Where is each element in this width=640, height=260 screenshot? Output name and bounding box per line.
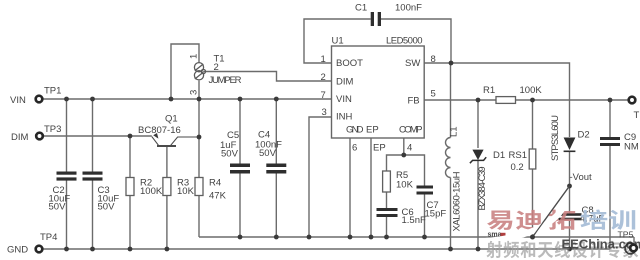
- node VIN-T1 riser: [169, 97, 174, 102]
- svg-text:-Vout: -Vout: [570, 172, 593, 183]
- node gnd L1: [448, 247, 453, 252]
- watermark gray chars 射频和天线设计专家: [487, 241, 639, 258]
- capacitor C1 plates: [371, 12, 381, 26]
- wire C5 column: [239, 99, 241, 237]
- wire pin6 drop: [349, 138, 351, 237]
- svg-text:2: 2: [214, 62, 219, 73]
- zener diode D1: [472, 150, 483, 160]
- node FB-D1: [476, 98, 481, 103]
- svg-text:R1: R1: [483, 85, 495, 96]
- svg-text:100K: 100K: [140, 186, 163, 197]
- node rail C7: [422, 235, 427, 240]
- svg-text:GND: GND: [346, 125, 364, 136]
- wire C8 column: [569, 186, 571, 249]
- node rail C6: [384, 235, 389, 240]
- node rail C5: [238, 235, 243, 240]
- terminal TP1: [36, 96, 43, 103]
- wire COMP to R5: [387, 155, 404, 171]
- node VIN-C2: [64, 97, 69, 102]
- resistor R2: [126, 178, 134, 196]
- svg-text:7: 7: [321, 90, 326, 101]
- node VIN-199: [197, 97, 202, 102]
- resistor R5: [383, 171, 391, 192]
- wire T1 riser: [171, 44, 199, 99]
- svg-text:GND: GND: [7, 245, 28, 256]
- svg-text:6: 6: [352, 143, 357, 154]
- node COMP: [401, 153, 406, 158]
- wire SW stub and top line: [424, 63, 569, 137]
- wire COMP drop: [403, 138, 405, 155]
- node gnd C8: [567, 247, 572, 252]
- svg-text:D1: D1: [493, 150, 505, 161]
- svg-text:2: 2: [321, 72, 326, 83]
- node FB-RS1: [530, 98, 535, 103]
- transistor Q1: [152, 133, 199, 146]
- node rail pin6: [348, 235, 353, 240]
- node rail INH: [307, 235, 312, 240]
- capacitor C4 plates: [266, 164, 286, 174]
- wire C1 to SW node: [381, 19, 451, 63]
- node Q1 emitter: [197, 135, 202, 140]
- wire C6 to rail: [386, 217, 388, 237]
- svg-text:D2: D2: [578, 130, 590, 141]
- wire VIN rail: [42, 98, 331, 100]
- node SW: [449, 61, 454, 66]
- capacitor C8 plates: [559, 213, 582, 220]
- svg-text:50V: 50V: [221, 149, 239, 160]
- node -Vout: [567, 184, 572, 189]
- wire -Vout diagonal: [533, 186, 570, 237]
- capacitor C6 plates: [377, 208, 398, 217]
- capacitor C2 plates: [57, 172, 77, 181]
- wire COMP to C7: [404, 155, 425, 186]
- svg-text:1: 1: [189, 54, 200, 59]
- diode D2: [564, 138, 576, 153]
- op-amp U1 IC box LED5000: [332, 46, 425, 138]
- svg-text:VIN: VIN: [336, 94, 352, 105]
- node rail EP: [369, 235, 374, 240]
- node gnd R2: [128, 247, 133, 252]
- svg-text:TP3: TP3: [44, 124, 61, 135]
- svg-text:0.2: 0.2: [511, 162, 524, 173]
- resistor R3: [163, 178, 171, 196]
- wire RS1 column: [532, 100, 534, 237]
- svg-text:3: 3: [322, 107, 327, 118]
- svg-text:50V: 50V: [49, 202, 67, 213]
- wire R3 column: [166, 146, 168, 249]
- svg-text:SW: SW: [405, 58, 420, 69]
- svg-text:L1: L1: [449, 126, 460, 137]
- svg-text:TP4: TP4: [40, 232, 57, 243]
- node FB-C9: [608, 98, 613, 103]
- svg-text:BC807-16: BC807-16: [138, 125, 181, 136]
- capacitor C9 plates: [600, 137, 620, 146]
- svg-text:8: 8: [431, 54, 436, 65]
- watermark white swoosh: [486, 207, 564, 242]
- svg-text:TP1: TP1: [44, 86, 61, 97]
- svg-text:RS1: RS1: [509, 150, 527, 161]
- svg-text:VIN: VIN: [10, 95, 26, 106]
- wire C3 column: [92, 99, 94, 249]
- capacitor C3 plates: [83, 172, 103, 181]
- node rail RS1: [530, 235, 535, 240]
- node VIN-C5: [238, 97, 243, 102]
- svg-text:3: 3: [189, 90, 200, 95]
- wire DIM line: [43, 135, 152, 137]
- wire node x199 column: [198, 99, 200, 237]
- node gnd R3: [165, 247, 170, 252]
- svg-text:XAL6060-15uH: XAL6060-15uH: [452, 171, 463, 231]
- svg-text:50V: 50V: [98, 202, 116, 213]
- wire C4 column: [275, 99, 277, 237]
- svg-text:C1: C1: [355, 3, 367, 14]
- wire -Vout rail: [199, 237, 634, 244]
- node gnd C2: [64, 247, 69, 252]
- terminal TP3: [36, 133, 43, 140]
- wire D1 column: [477, 100, 479, 249]
- wire EP drop: [370, 138, 372, 237]
- wire FB line: [424, 99, 629, 101]
- resistor R1: [496, 97, 516, 104]
- wire L1 column: [450, 63, 452, 249]
- wire T1 pin2 to DIM pin: [203, 72, 331, 82]
- svg-text:47K: 47K: [209, 191, 227, 202]
- svg-text:1.5nF: 1.5nF: [402, 215, 426, 226]
- wire GND rail: [42, 248, 610, 250]
- watermark swirl at TP5: [625, 243, 636, 254]
- resistor RS1: [529, 149, 536, 169]
- svg-text:100K: 100K: [520, 85, 543, 96]
- svg-text:100nF: 100nF: [395, 3, 422, 14]
- wire T1 pin3 to VIN: [198, 81, 200, 99]
- terminal TP2: [629, 97, 636, 104]
- node gnd C3: [90, 247, 95, 252]
- svg-text:JUMPER: JUMPER: [209, 75, 242, 86]
- terminal TP4: [36, 246, 43, 253]
- svg-text:U1: U1: [332, 36, 344, 47]
- svg-text:FB: FB: [408, 96, 420, 107]
- inductor L1 coil: [446, 138, 451, 178]
- capacitor C5 plates: [230, 164, 250, 174]
- wire INH tie: [309, 117, 332, 237]
- svg-text:Q1: Q1: [165, 114, 178, 125]
- watermark blue chars 培训: [580, 210, 635, 230]
- svg-text:10K: 10K: [177, 186, 195, 197]
- svg-text:5: 5: [431, 89, 436, 100]
- wire BOOT to C1: [304, 19, 371, 63]
- capacitor C7 plates: [417, 186, 434, 195]
- wire R2 column: [129, 136, 131, 249]
- wire R5 to C6: [386, 192, 388, 208]
- watermark red chars 易迪拓: [487, 210, 575, 230]
- svg-text:BOOT: BOOT: [336, 58, 363, 69]
- wire D2 to -Vout node: [569, 152, 571, 186]
- svg-text:INH: INH: [336, 112, 353, 123]
- svg-text:4: 4: [407, 143, 412, 154]
- node VIN-C3: [90, 97, 95, 102]
- svg-text:TP2: TP2: [634, 110, 640, 121]
- wire C2 column: [66, 99, 68, 249]
- node DIM-R2: [128, 134, 133, 139]
- svg-text:EP: EP: [373, 143, 386, 154]
- terminal TP5: [630, 245, 637, 252]
- svg-text:50V: 50V: [259, 148, 277, 159]
- node gnd D1: [476, 247, 481, 252]
- svg-text:LED5000: LED5000: [386, 36, 423, 47]
- svg-text:10K: 10K: [396, 180, 414, 191]
- svg-text:STPS3L60U: STPS3L60U: [550, 115, 561, 161]
- watermark redrawn diagonal over swoosh: [533, 186, 570, 237]
- svg-text:1: 1: [321, 54, 326, 65]
- svg-text:BZX384-C39: BZX384-C39: [477, 167, 488, 211]
- svg-text:NM: NM: [624, 142, 639, 153]
- svg-text:15pF: 15pF: [425, 209, 447, 220]
- svg-text:DIM: DIM: [11, 132, 29, 143]
- jumper T1: [194, 63, 205, 80]
- svg-text:EP: EP: [366, 125, 379, 136]
- svg-text:DIM: DIM: [336, 77, 354, 88]
- node VIN-C4: [274, 97, 279, 102]
- resistor R4: [195, 178, 203, 196]
- wire C7 to rail: [424, 195, 426, 238]
- node rail C4: [274, 235, 279, 240]
- svg-text:R4: R4: [209, 178, 221, 189]
- wire C9 column: [609, 100, 611, 249]
- svg-text:COMP: COMP: [399, 125, 423, 136]
